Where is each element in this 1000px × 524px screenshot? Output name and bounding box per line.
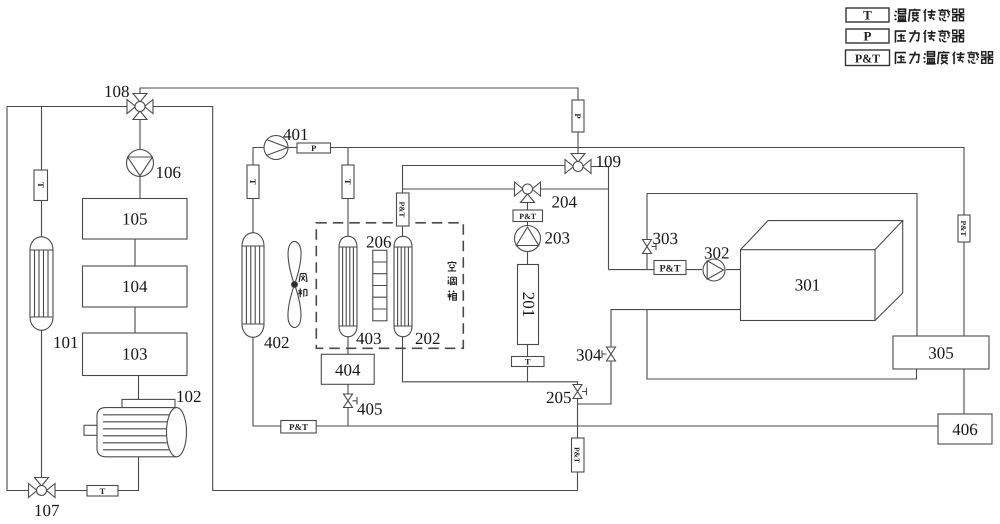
pump 106 [127, 150, 154, 177]
svg-text:T: T [525, 357, 531, 367]
wire: rail from P&T to box 406 [316, 425, 938, 427]
wire: valve 304 up to 301 lower port line [611, 310, 741, 347]
air-conditioning box dashed enclosure [316, 223, 463, 348]
sensor T vertical on 402 column [247, 165, 259, 199]
legend text pressure temperature sensor [895, 51, 994, 64]
label fan chinese 风机 [298, 274, 307, 298]
wire: compressor 401 left to T sensor to 402 [253, 148, 281, 427]
box 305 [893, 336, 989, 369]
svg-text:202: 202 [415, 329, 441, 348]
valve 205 [573, 385, 587, 399]
wire: valve 204 left port line [403, 188, 515, 190]
svg-text:206: 206 [366, 233, 392, 252]
svg-text:104: 104 [122, 277, 148, 296]
column 201 [518, 265, 539, 345]
svg-text:P: P [311, 143, 316, 153]
valve 109 three-way [565, 154, 591, 174]
sensor T vertical on 101 column [34, 170, 48, 201]
legend text temperature sensor [894, 9, 964, 22]
wire: T sensor to 101 top [41, 201, 43, 238]
valve 108 four-way [127, 94, 153, 120]
svg-text:403: 403 [356, 329, 382, 348]
valve 107 three-way [29, 478, 56, 498]
valve 405 [344, 394, 358, 408]
svg-text:P: P [573, 113, 583, 118]
heater 206 segmented column [373, 250, 387, 320]
wire: motor 102 bottom to T sensor to valve 107 [55, 457, 139, 491]
wire: 108 top port up and right to P sensor above 109 [140, 88, 578, 100]
wire: 204 bottom to P&T to pump 203 to 201 to T sensor to line [527, 202, 529, 382]
fan blades [288, 242, 301, 328]
wire: 403 column from long line to T sensor, to 403, 404, valve 405, rail [347, 148, 349, 427]
svg-text:P&T: P&T [573, 447, 582, 463]
svg-text:108: 108 [104, 82, 130, 101]
sensor P&T vertical below 205 [572, 438, 585, 472]
svg-text:105: 105 [122, 210, 148, 229]
svg-text:402: 402 [264, 333, 290, 352]
svg-text:P&T: P&T [519, 212, 537, 221]
heat exchanger 403 [339, 236, 357, 336]
svg-text:304: 304 [576, 346, 602, 365]
legend text pressure sensor [895, 30, 965, 43]
wire: loop lower-left leg down and bottom edge to 305 bottom [647, 310, 917, 379]
wire: valve 204 right port to vertical [541, 188, 609, 190]
sensor T horizontal bottom left [87, 486, 118, 497]
svg-text:T: T [248, 179, 258, 185]
wire: valve 205 down through P&T to bottom rail [577, 404, 579, 491]
label air-conditioning box chinese 空调箱 [447, 261, 456, 300]
svg-text:301: 301 [795, 276, 821, 295]
sensor T vertical on 403 column [342, 165, 354, 199]
svg-text:103: 103 [122, 345, 148, 364]
pump 203 [515, 226, 541, 252]
wire: 202 bottom to corner to valve 205 [403, 336, 578, 385]
svg-text:205: 205 [546, 388, 572, 407]
wire: 108 bottom to pump 106 [139, 120, 141, 150]
legend box P [846, 29, 889, 43]
sensor T horizontal below 201 [512, 357, 545, 367]
wire: box 103 to motor 102 [138, 376, 140, 400]
svg-text:107: 107 [34, 501, 60, 520]
box 406 [938, 414, 992, 444]
wire: 303 riser and loop top edge down to 305 top [647, 194, 917, 337]
heat exchanger 101 [30, 237, 53, 330]
svg-text:204: 204 [552, 193, 578, 212]
heat exchanger 402 [242, 233, 264, 338]
svg-text:406: 406 [952, 420, 978, 439]
wire: compressor 401 right to P box [288, 147, 297, 149]
svg-text:T: T [863, 8, 872, 23]
sensor P&T horizontal on rail [281, 421, 316, 434]
motor 102 [84, 399, 187, 456]
legend box T [846, 8, 889, 22]
wire: box 104 to box 103 [134, 307, 136, 333]
wire: P&T to 202 top [402, 226, 404, 237]
wire: valve 205 to junction, right to valve 304 [578, 361, 612, 404]
sensor P&T horizontal below 204 [513, 210, 543, 222]
box 103 [83, 333, 188, 376]
valve 304 [602, 347, 616, 361]
wire: valve 109 left port to 202 column through P&T [403, 166, 566, 194]
box 404 [321, 354, 374, 384]
svg-text:305: 305 [928, 344, 954, 363]
wire: pump 106 to box 105 [139, 177, 141, 199]
valve 204 three-way [515, 182, 541, 203]
pump 302 [703, 259, 725, 281]
box 105 [83, 199, 188, 240]
svg-text:P&T: P&T [855, 52, 880, 66]
svg-text:102: 102 [176, 387, 202, 406]
svg-text:405: 405 [357, 400, 383, 419]
wire: 302 line from corner through P&T and pump to 301 upper port [609, 269, 741, 271]
sensor P vertical above 109 [572, 100, 584, 132]
svg-text:P: P [864, 29, 872, 44]
sensor P&T vertical right side [958, 215, 970, 242]
sensor P horizontal at 401 [297, 143, 331, 153]
wire: P sensor to valve 109 [577, 132, 579, 154]
wire: box 105 to box 104 [134, 239, 136, 266]
svg-text:404: 404 [335, 361, 361, 380]
svg-text:106: 106 [156, 163, 182, 182]
sensor P&T horizontal before 302 [654, 261, 686, 275]
compressor 401 [264, 136, 288, 160]
wire: 109 right port corner down to 302 line [591, 167, 609, 270]
valve 303 [643, 240, 657, 254]
svg-text:P&T: P&T [289, 422, 308, 432]
wire: 101 bottom to valve 107 [41, 331, 43, 478]
tank 301 three-d box [741, 221, 903, 321]
svg-text:101: 101 [53, 333, 79, 352]
svg-text:P&T: P&T [398, 202, 407, 218]
legend box P&T [846, 50, 890, 66]
svg-text:303: 303 [653, 229, 679, 248]
wire: left rail from 108 down and to valve 107 [7, 107, 127, 491]
sensor P&T vertical above 202 [397, 193, 410, 226]
heat exchanger 202 [394, 236, 412, 336]
svg-text:T: T [343, 179, 353, 185]
svg-text:T: T [100, 486, 106, 496]
svg-text:401: 401 [283, 125, 309, 144]
svg-text:201: 201 [519, 292, 538, 318]
svg-text:P&T: P&T [959, 221, 968, 237]
svg-text:302: 302 [704, 244, 730, 263]
svg-text:T: T [36, 182, 46, 188]
svg-text:P&T: P&T [659, 264, 680, 275]
box 104 [83, 266, 188, 307]
wire: 305 bottom to box 406 [963, 369, 965, 414]
svg-text:203: 203 [545, 229, 571, 248]
wire: 108 right port to right rail down to bottom rail [153, 107, 578, 491]
wire: long line from P box right to far right P&T down to 305 [331, 148, 965, 337]
wire: 101 column top from rail to T sensor [41, 107, 43, 171]
svg-text:109: 109 [596, 152, 622, 171]
